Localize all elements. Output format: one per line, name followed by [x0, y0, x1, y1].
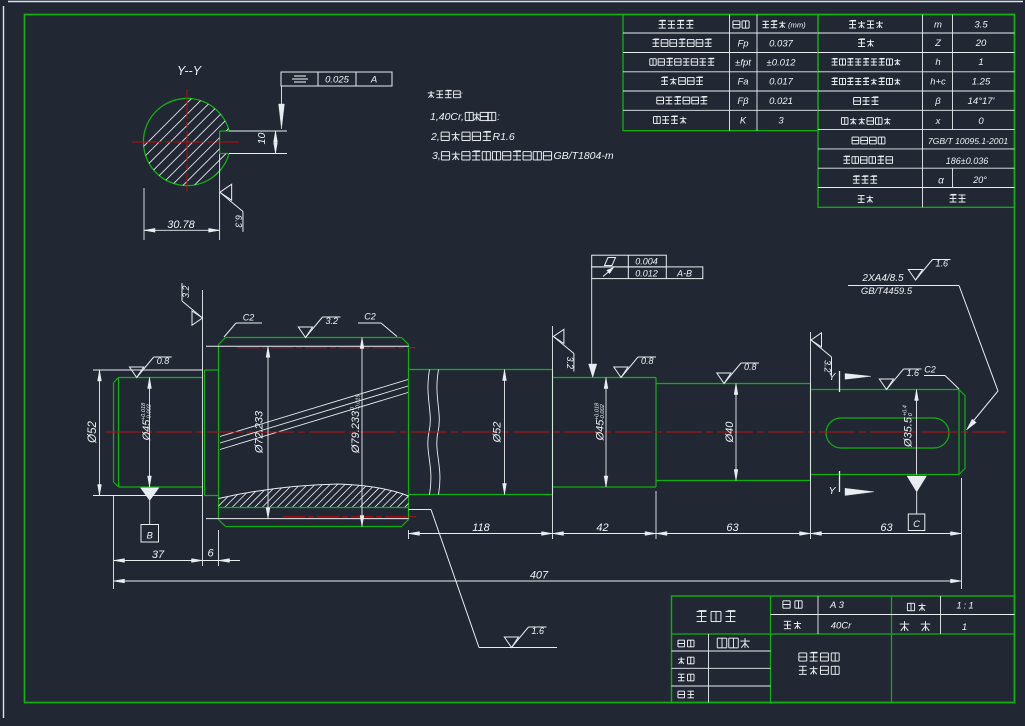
svg-text::: : [497, 112, 500, 123]
svg-text:1,40Cr: 1,40Cr [430, 111, 462, 123]
svg-text:C: C [913, 519, 920, 530]
svg-text:37: 37 [152, 549, 165, 561]
svg-text:Ø72.233: Ø72.233 [253, 410, 265, 454]
svg-text:6: 6 [207, 548, 214, 560]
svg-text:0.8: 0.8 [744, 362, 757, 372]
svg-text:Ø79.233: Ø79.233 [350, 410, 362, 454]
svg-text:3.5: 3.5 [974, 20, 988, 31]
svg-text:±0.012: ±0.012 [767, 58, 797, 69]
svg-text:63: 63 [726, 522, 739, 534]
svg-text:A-B: A-B [676, 268, 692, 278]
svg-text:A: A [370, 75, 377, 86]
svg-text:7GB/T 10095.1-2001: 7GB/T 10095.1-2001 [928, 136, 1008, 146]
svg-text:0.037: 0.037 [769, 39, 793, 50]
svg-text:14°17': 14°17' [968, 96, 996, 107]
svg-text:3: 3 [778, 116, 784, 127]
svg-text:1: 1 [978, 57, 983, 68]
svg-text:C2: C2 [364, 312, 376, 322]
svg-text:30.78: 30.78 [167, 219, 195, 231]
svg-text:407: 407 [530, 570, 549, 582]
svg-text:0: 0 [978, 116, 984, 127]
svg-text:Ø35.5: Ø35.5 [902, 416, 914, 448]
svg-text:GB/T1804-m: GB/T1804-m [554, 150, 614, 162]
svg-text:20: 20 [975, 38, 987, 49]
svg-text:Fp: Fp [737, 39, 748, 50]
svg-text:186±0.036: 186±0.036 [946, 156, 988, 166]
svg-text:10: 10 [256, 133, 268, 145]
svg-text:1:1: 1:1 [956, 601, 975, 612]
svg-text:,: , [461, 111, 464, 123]
svg-text:1.6: 1.6 [936, 258, 949, 268]
svg-text:1.6: 1.6 [907, 368, 920, 378]
svg-text:Z: Z [934, 38, 942, 49]
svg-text:118: 118 [472, 522, 490, 534]
svg-text:3,: 3, [432, 150, 441, 162]
svg-text:40Cr: 40Cr [831, 621, 852, 632]
svg-text:Ø40: Ø40 [724, 421, 736, 444]
svg-text:α: α [938, 176, 944, 187]
svg-text:Ø52: Ø52 [87, 421, 99, 444]
svg-text:Y: Y [828, 485, 836, 497]
svg-text:Ø52: Ø52 [491, 422, 503, 444]
svg-text:β: β [934, 96, 941, 107]
svg-text:h+c: h+c [930, 77, 946, 88]
svg-text:h: h [935, 57, 940, 68]
svg-text:Y: Y [828, 371, 836, 383]
svg-text:C2: C2 [924, 365, 936, 375]
svg-text:GB/T4459.5: GB/T4459.5 [861, 286, 913, 297]
svg-text:Y--Y: Y--Y [177, 64, 203, 78]
svg-text:3.2: 3.2 [326, 316, 339, 326]
svg-text:20°: 20° [972, 175, 987, 185]
svg-text:(mm): (mm) [788, 21, 806, 30]
svg-text:0.017: 0.017 [769, 77, 793, 88]
svg-text:-0.002: -0.002 [147, 403, 153, 420]
svg-text:±fpt: ±fpt [735, 58, 751, 69]
svg-text:R1.6: R1.6 [493, 131, 515, 143]
svg-text:0.8: 0.8 [641, 356, 654, 366]
svg-text:6.3: 6.3 [233, 215, 243, 228]
svg-text:3.2: 3.2 [181, 285, 191, 298]
svg-text:0.004: 0.004 [635, 257, 658, 267]
svg-text:0.8: 0.8 [157, 356, 170, 366]
svg-text:1.6: 1.6 [532, 626, 545, 636]
svg-text:A 3: A 3 [829, 600, 845, 611]
svg-text:1.25: 1.25 [972, 77, 991, 88]
svg-text:m: m [934, 20, 942, 31]
svg-text:Ø45: Ø45 [594, 419, 606, 442]
svg-text:0.012: 0.012 [635, 268, 658, 278]
svg-text:2XA4/8.5: 2XA4/8.5 [861, 273, 904, 284]
svg-text:1: 1 [962, 622, 967, 633]
svg-text:-0.019: -0.019 [356, 394, 362, 410]
svg-text:Fβ: Fβ [737, 96, 749, 107]
svg-text:63: 63 [880, 522, 893, 534]
svg-text:K: K [740, 116, 747, 127]
svg-text:-0.002: -0.002 [600, 403, 606, 420]
svg-text:B: B [147, 531, 154, 542]
svg-text:Fa: Fa [737, 77, 748, 88]
svg-text:42: 42 [596, 522, 608, 534]
svg-text:C2: C2 [243, 313, 255, 323]
svg-text:Ø45: Ø45 [141, 419, 153, 442]
svg-text:2,: 2, [430, 131, 440, 143]
svg-text:0.025: 0.025 [325, 75, 349, 86]
svg-text:0.021: 0.021 [769, 96, 793, 107]
svg-text:3.2: 3.2 [565, 357, 575, 370]
